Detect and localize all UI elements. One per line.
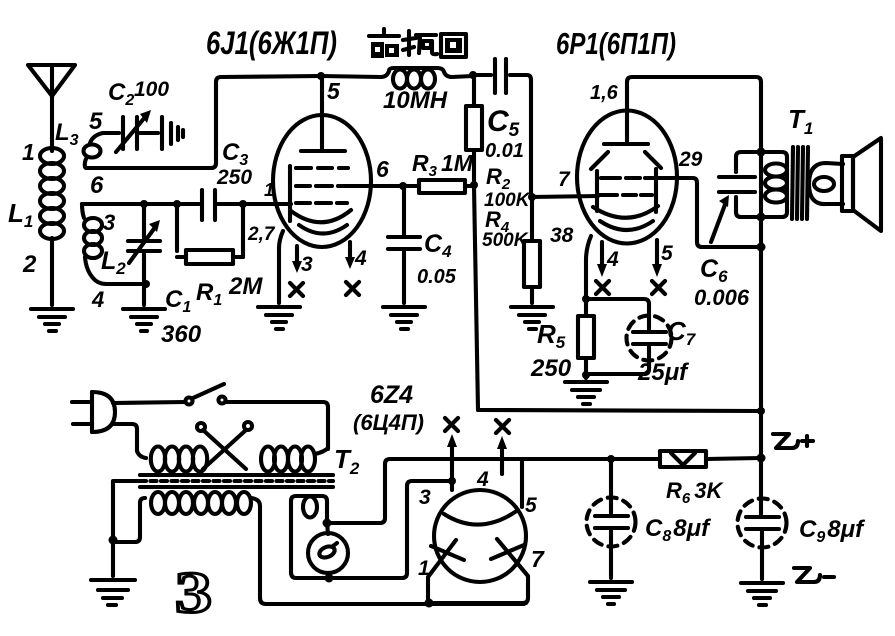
wire pin 6 to R3 bbox=[352, 184, 419, 188]
node R3 / R2 junction bbox=[470, 181, 478, 189]
node C4 tap bbox=[399, 182, 407, 190]
capacitor C3 (coupling) bbox=[202, 190, 215, 220]
6J1 grid dashes row 2 bbox=[296, 184, 351, 188]
ground (C9) bbox=[741, 583, 783, 605]
speaker body and cone bbox=[842, 138, 881, 231]
6J1 grid dashes row 1 bbox=[296, 166, 348, 170]
wire switch to T2 primary right bbox=[226, 402, 328, 449]
svg-text:4: 4 bbox=[91, 287, 104, 312]
svg-text:3: 3 bbox=[419, 486, 431, 509]
wire bottom feed to B+ rail bbox=[478, 410, 761, 411]
R1 label bbox=[196, 273, 263, 309]
node shield/secondary bbox=[109, 536, 118, 545]
AC plug bbox=[72, 392, 115, 432]
wire 6Z4 base bbox=[430, 601, 526, 605]
6Z4 right anode plate bbox=[491, 545, 524, 559]
svg-text:0.01: 0.01 bbox=[485, 140, 524, 162]
C4 labels bbox=[417, 230, 457, 288]
svg-text:R63K: R63K bbox=[666, 478, 724, 507]
C6 labels bbox=[694, 255, 750, 310]
node 6P1 cathode junction bbox=[582, 295, 590, 303]
tube 6Z4 title bbox=[353, 381, 424, 435]
L3 labels bbox=[55, 108, 104, 199]
x mark pin 4 bbox=[346, 282, 359, 295]
svg-text:(6Ц4П): (6Ц4П) bbox=[353, 410, 424, 435]
voltage selector crossover bbox=[197, 422, 252, 469]
svg-text:2M: 2M bbox=[228, 273, 263, 300]
6Z4 left anode plate bbox=[431, 546, 464, 560]
coil L2 bbox=[82, 204, 146, 284]
label yi- bbox=[794, 568, 834, 582]
node pin 3 bbox=[448, 477, 456, 485]
transformer T1 primary frame bbox=[736, 152, 787, 217]
svg-text:100: 100 bbox=[134, 78, 169, 101]
x mark 6P1 pin 4 bbox=[596, 281, 609, 294]
6Z4 pin labels 1 and 7 bbox=[418, 546, 545, 580]
T1 primary winding loops bbox=[765, 164, 787, 203]
C5 labels bbox=[485, 105, 524, 162]
svg-text:4: 4 bbox=[476, 468, 489, 491]
power switch bbox=[186, 384, 226, 405]
x mark 6Z4 pin 3 bbox=[445, 418, 458, 431]
node anode wire joins rail bbox=[757, 243, 766, 252]
T1 core lines bbox=[792, 147, 808, 219]
6J1 pin 3 filament arrow bbox=[292, 246, 313, 276]
svg-text:6P1(6П1П): 6P1(6П1П) bbox=[556, 26, 676, 61]
node choke / R2 / C5 bbox=[469, 71, 477, 79]
ground (antenna coil) bbox=[31, 309, 73, 331]
6Z4 right anode lead to base bbox=[497, 539, 528, 603]
C2 value label bbox=[108, 78, 169, 109]
6J1 grid side rail bbox=[288, 166, 292, 221]
C6 pointer arrow bbox=[711, 195, 729, 242]
node T1 top bbox=[757, 148, 766, 157]
wire B+ line branch to 6Z4 pin 5 bbox=[520, 459, 524, 507]
speaker voice coil bbox=[809, 163, 843, 204]
svg-text:6Z4: 6Z4 bbox=[370, 381, 413, 409]
svg-text:4: 4 bbox=[606, 248, 619, 271]
L2 labels bbox=[91, 210, 126, 312]
6P1 pin 1,6 lead and top wire bbox=[627, 77, 761, 458]
x mark 6P1 pin 5 bbox=[652, 281, 665, 294]
6P1 grid dashes row 1 bbox=[601, 176, 653, 180]
6J1 anode bar bbox=[301, 149, 345, 153]
wire cathode to C7 bbox=[586, 299, 649, 329]
6P1 anode bar bbox=[604, 142, 648, 146]
ground (T2) bbox=[91, 580, 135, 605]
6P1 beam plates bbox=[591, 152, 661, 169]
node T1 bottom bbox=[757, 213, 766, 222]
resistor R6 (fusible) bbox=[660, 451, 706, 467]
svg-text:1,6: 1,6 bbox=[590, 82, 619, 104]
x mark pin 3 bbox=[290, 283, 303, 296]
6J1 cathode arcs bbox=[291, 210, 351, 234]
T2 primary winding right group bbox=[261, 447, 328, 472]
wire L1 to ground bbox=[50, 238, 54, 305]
resistor R4 bbox=[524, 197, 540, 303]
T2 secondary winding bbox=[113, 492, 266, 604]
resistor R5 bbox=[578, 299, 594, 378]
node lamp bottom bbox=[325, 574, 334, 583]
6Z4 left anode lead to base bbox=[428, 540, 456, 603]
C7 labels bbox=[637, 316, 697, 386]
node R1 right bbox=[239, 200, 247, 208]
node L2/C1 top bbox=[140, 200, 148, 208]
svg-text:C88μf: C88μf bbox=[645, 515, 711, 545]
svg-text:0.006: 0.006 bbox=[694, 285, 750, 310]
R5 labels bbox=[530, 319, 572, 382]
svg-text:2: 2 bbox=[22, 251, 37, 278]
6P1 pin 5 filament arrow bbox=[652, 240, 673, 277]
node R4 top bbox=[528, 193, 536, 201]
wire cathode 2,7 to ground bbox=[279, 231, 283, 303]
ground (R5/C7) bbox=[565, 382, 607, 404]
svg-text:4: 4 bbox=[354, 247, 367, 270]
ground (R4) bbox=[511, 307, 553, 329]
svg-text:3: 3 bbox=[175, 560, 212, 625]
sideways ground at C2 bbox=[162, 117, 183, 149]
node L2/C1 bottom bbox=[142, 280, 150, 288]
6Z4 inner top arc bbox=[444, 510, 518, 525]
6Z4 pin labels 3 and 4 bbox=[419, 468, 489, 509]
svg-text:29: 29 bbox=[678, 148, 703, 171]
svg-text:R31M: R31M bbox=[412, 150, 474, 180]
6J1 pin 4 filament arrow bbox=[345, 242, 367, 270]
ground (C8) bbox=[590, 582, 632, 604]
svg-text:250: 250 bbox=[216, 166, 252, 189]
C3 labels bbox=[216, 139, 252, 189]
Chinese caption: RF choke (drawn glyphs) bbox=[369, 29, 466, 58]
wire plug bottom to T2 primary left bbox=[112, 424, 137, 451]
svg-text:500K: 500K bbox=[482, 230, 529, 251]
svg-text:0.05: 0.05 bbox=[417, 266, 457, 288]
wire B+ distribution line bbox=[706, 458, 761, 459]
node B+ (yi+) bbox=[757, 454, 766, 463]
label yi+ bbox=[773, 434, 813, 448]
svg-text:5: 5 bbox=[89, 108, 103, 135]
svg-text:360: 360 bbox=[161, 321, 202, 348]
resistor R2 bbox=[466, 75, 482, 186]
6P1 grid dashes row 2 bbox=[599, 193, 652, 197]
RF choke 10MH bbox=[321, 68, 473, 89]
T2 filament winding loop bbox=[291, 481, 452, 578]
electrolytic C9 bbox=[738, 458, 787, 579]
svg-text:250: 250 bbox=[530, 355, 572, 382]
svg-text:7: 7 bbox=[531, 546, 545, 572]
antenna bbox=[28, 65, 75, 151]
wire core shield to ground bbox=[113, 481, 142, 540]
T2 primary winding left group bbox=[137, 447, 207, 472]
resistor R1 bbox=[177, 204, 243, 264]
6P1 cathode arcs bbox=[593, 206, 658, 230]
svg-text:6J1(6Ж1П): 6J1(6Ж1П) bbox=[206, 25, 337, 61]
6J1 grid dashes row 3 bbox=[296, 201, 347, 205]
capacitor C5 bbox=[473, 59, 531, 197]
svg-text:3: 3 bbox=[301, 253, 313, 276]
capacitor C2 (variable trimmer) bbox=[116, 110, 158, 152]
svg-text:1: 1 bbox=[418, 557, 430, 580]
6P1 pin 4 filament arrow bbox=[597, 242, 619, 277]
svg-text:5: 5 bbox=[327, 78, 341, 104]
wire screen line down to supply bbox=[474, 186, 478, 410]
wire grid line bbox=[82, 202, 291, 206]
ground (6J1 cathode) bbox=[258, 307, 300, 329]
R2 R4 labels bbox=[482, 164, 531, 251]
resistor R3 bbox=[419, 180, 474, 193]
pilot lamp bbox=[308, 523, 348, 579]
inductor L1 bbox=[40, 148, 64, 239]
svg-text:25μf: 25μf bbox=[637, 359, 689, 386]
node lamp top bbox=[323, 519, 332, 528]
svg-text:10MH: 10MH bbox=[383, 87, 448, 114]
wire grid line to 6P1 pin 7 bbox=[531, 196, 598, 197]
svg-text:1: 1 bbox=[22, 139, 35, 165]
svg-text:7: 7 bbox=[558, 168, 571, 191]
ground (C4) bbox=[383, 307, 425, 329]
node R1 left bbox=[173, 200, 181, 208]
capacitor C6 plates bbox=[719, 177, 755, 192]
T2 core lines bbox=[140, 475, 333, 487]
6P1 grid side rails bbox=[597, 169, 656, 212]
6Z4 filament pin 3 lead with arrow bbox=[447, 434, 457, 490]
node feed/B+ rail bbox=[757, 407, 765, 415]
x mark 6Z4 pin 4 bbox=[496, 420, 509, 433]
capacitor C4 bbox=[388, 186, 420, 303]
C1 labels bbox=[161, 286, 202, 348]
variable capacitor C1 bbox=[128, 204, 160, 305]
6P1 cathode 3,8 wire bbox=[586, 236, 591, 299]
svg-text:3: 3 bbox=[103, 210, 115, 235]
wire plug top to switch bbox=[113, 402, 185, 403]
L1 label and pin numbers bbox=[8, 139, 37, 278]
electrolytic C8 bbox=[587, 459, 636, 578]
wire anode 29 to T1 bottom bbox=[654, 178, 761, 247]
6J1 pin 5 lead bbox=[320, 77, 324, 149]
wire filament/B+ line bbox=[331, 459, 660, 523]
6Z4 filament pin 4 lead with arrow bbox=[497, 436, 507, 474]
svg-text:38: 38 bbox=[550, 224, 574, 247]
svg-text:C98μf: C98μf bbox=[799, 516, 865, 546]
electrolytic C7 bbox=[586, 316, 672, 375]
ground (C1) bbox=[123, 309, 165, 331]
tube 6J1 envelope bbox=[273, 115, 371, 247]
node C8 tap bbox=[607, 455, 615, 463]
svg-text:6: 6 bbox=[376, 156, 389, 182]
svg-text:2,7: 2,7 bbox=[247, 224, 276, 245]
coil L3 (tickler) bbox=[84, 76, 322, 168]
svg-text:5: 5 bbox=[525, 494, 537, 517]
svg-text:6: 6 bbox=[90, 172, 104, 199]
wire bottom rail bbox=[266, 602, 524, 606]
node base joins bottom rail bbox=[425, 599, 434, 608]
node pin5 top rail bbox=[317, 72, 325, 80]
tube 6P1 envelope bbox=[577, 111, 677, 244]
node R5 bottom bbox=[582, 371, 590, 379]
svg-text:5: 5 bbox=[661, 242, 673, 265]
tube 6Z4 envelope bbox=[434, 490, 526, 582]
